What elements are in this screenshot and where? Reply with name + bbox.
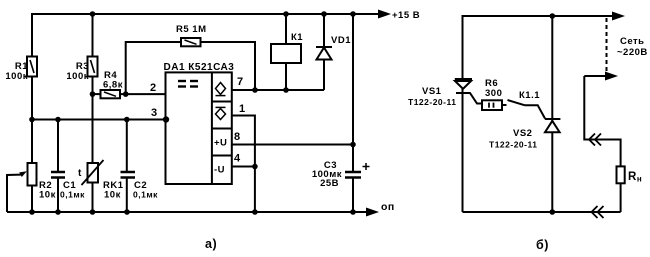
- svg-text:б): б): [536, 238, 549, 252]
- op-amp DA1 K521SA3 comparator box: [166, 72, 232, 184]
- wire R5 to output: [201, 42, 256, 90]
- arrow op: [366, 208, 379, 217]
- resistor Rn: [617, 166, 625, 183]
- wire bottom rail right: [463, 211, 621, 213]
- capacitor C3: [345, 171, 361, 174]
- resistor R1: [27, 57, 37, 77]
- svg-text:VS1: VS1: [422, 86, 442, 97]
- wire pin 8: [232, 144, 353, 146]
- svg-text:300: 300: [485, 88, 502, 99]
- svg-text:6,8к: 6,8к: [103, 80, 123, 91]
- node pin1 column bottom: [252, 209, 258, 215]
- svg-text:0,1мк: 0,1мк: [60, 190, 85, 200]
- svg-text:VS2: VS2: [513, 128, 532, 139]
- arrow +15V: [378, 10, 391, 19]
- wire op bottom rail: [7, 211, 367, 213]
- node VD1 top: [321, 11, 327, 17]
- connector break upper: [589, 134, 601, 146]
- node RK1 bottom: [90, 209, 96, 215]
- svg-text:+15 В: +15 В: [392, 10, 420, 21]
- node pin 3 input: [163, 116, 169, 122]
- node R3 top: [90, 11, 96, 17]
- svg-text:-U: -U: [214, 165, 225, 176]
- arrow mains bottom: [584, 75, 606, 77]
- connector break lower: [592, 206, 604, 218]
- node pin3/R1: [29, 117, 35, 123]
- wire pin2 line: [120, 93, 166, 95]
- resistor R5: [126, 42, 181, 94]
- comparator equals symbol: [178, 81, 198, 87]
- svg-text:0,1мк: 0,1мк: [133, 190, 158, 200]
- node C1 bottom: [55, 209, 61, 215]
- arrow mains top: [612, 12, 625, 21]
- wire +15V top rail: [32, 14, 379, 57]
- resistor R6: [482, 100, 502, 110]
- svg-text:1: 1: [239, 103, 246, 115]
- svg-text:К1.1: К1.1: [519, 90, 540, 101]
- wire pin 1 to ground rail: [232, 116, 255, 213]
- svg-text:Т122-20-11: Т122-20-11: [408, 97, 456, 107]
- node VS2 top: [550, 13, 556, 19]
- node +U column top: [350, 11, 356, 17]
- svg-text:10к: 10к: [104, 190, 121, 201]
- wire R3 node to RK1: [92, 94, 94, 163]
- wire load branch: [584, 76, 620, 166]
- contact K1.1: [508, 100, 525, 105]
- wire +U column: [352, 14, 354, 172]
- node K1 top: [283, 11, 289, 17]
- diode VD1: [323, 14, 325, 47]
- svg-text:а): а): [205, 237, 217, 251]
- svg-text:2: 2: [150, 82, 157, 94]
- node C1 top: [55, 117, 61, 123]
- relay K1: [285, 14, 287, 44]
- node C2 bottom: [124, 209, 130, 215]
- wire R2 wiper: [7, 175, 21, 212]
- svg-text:25В: 25В: [320, 178, 339, 189]
- node pin4: [252, 164, 258, 170]
- svg-text:VD1: VD1: [331, 35, 351, 46]
- svg-text:Т122-20-11: Т122-20-11: [489, 140, 537, 150]
- wire mains dashed: [606, 18, 608, 74]
- wire pin 4: [232, 166, 255, 168]
- thermistor RK1: [88, 163, 99, 183]
- wire R2 bottom: [31, 186, 33, 213]
- resistor R4: [93, 93, 101, 95]
- svg-text:8: 8: [234, 131, 241, 143]
- node R3/R4: [90, 91, 96, 97]
- wire pin 7 output: [232, 89, 324, 91]
- resistor R3: [92, 14, 94, 57]
- svg-text:~220В: ~220В: [617, 47, 648, 58]
- svg-text:+U: +U: [214, 138, 227, 149]
- node K1/pin7: [283, 87, 289, 93]
- svg-text:3: 3: [151, 107, 158, 119]
- svg-text:DA1 К521СА3: DA1 К521СА3: [164, 62, 235, 73]
- wire R3 bottom: [92, 77, 94, 95]
- open collector symbol cell 1: [216, 83, 226, 96]
- svg-text:4: 4: [234, 153, 241, 165]
- svg-text:10к: 10к: [39, 190, 56, 201]
- C3 plus sign: [363, 163, 370, 170]
- thyristor VS2: [551, 16, 553, 212]
- wire VS1 gate: [467, 93, 483, 104]
- resistor R2 (potentiometer): [28, 163, 37, 186]
- capacitor C1: [57, 120, 59, 173]
- node R2 bottom: [29, 209, 35, 215]
- svg-text:Сеть: Сеть: [620, 36, 645, 47]
- node pin8/+U column: [350, 142, 356, 148]
- node C3 bottom: [350, 209, 356, 215]
- wire R1 bottom to pin3 line: [31, 77, 33, 120]
- svg-text:100к: 100к: [5, 71, 28, 82]
- node R5/pin7: [252, 87, 258, 93]
- capacitor C2: [126, 120, 128, 173]
- svg-text:t: t: [78, 168, 82, 179]
- wire R1 to R2: [31, 120, 33, 164]
- wire pin3 line: [32, 119, 166, 121]
- node R5/pin2: [123, 91, 129, 97]
- thyristor VS1: [462, 16, 464, 212]
- svg-text:7: 7: [237, 76, 244, 88]
- svg-text:оп: оп: [381, 201, 395, 213]
- node C2 top: [124, 117, 130, 123]
- strobe symbol cell 2: [216, 107, 226, 119]
- svg-text:R5 1M: R5 1M: [176, 24, 206, 35]
- node VS2 bottom: [550, 209, 556, 215]
- svg-text:К1: К1: [291, 32, 303, 43]
- wire mains top rail: [463, 16, 614, 79]
- svg-text:100к: 100к: [66, 71, 89, 82]
